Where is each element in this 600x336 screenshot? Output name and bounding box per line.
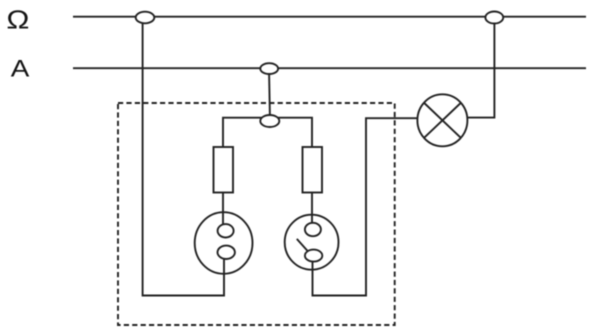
svg-text:A: A <box>11 54 30 82</box>
svg-text:Ω: Ω <box>6 5 29 34</box>
